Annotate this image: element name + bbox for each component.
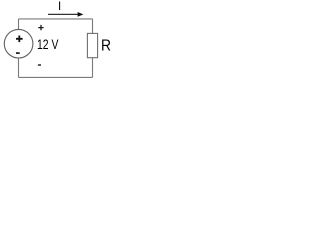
svg-text:I: I xyxy=(58,1,61,13)
wire right lower xyxy=(92,58,94,78)
wire right upper xyxy=(92,19,94,34)
wire top xyxy=(19,18,93,20)
voltage source minus (inside) xyxy=(16,52,20,54)
current arrowhead xyxy=(78,12,84,17)
resistor R box xyxy=(87,33,97,57)
polarity plus (outside top) xyxy=(38,25,43,30)
svg-text:12 V: 12 V xyxy=(37,36,59,52)
svg-text:R: R xyxy=(101,37,111,54)
wire bottom xyxy=(19,76,93,78)
voltage source V1 circle xyxy=(4,29,33,58)
polarity minus (outside bottom) xyxy=(38,64,41,66)
current arrow I xyxy=(48,13,79,15)
wire left lower xyxy=(18,58,20,77)
voltage source plus (inside) xyxy=(16,36,23,43)
wire left upper xyxy=(18,19,20,30)
